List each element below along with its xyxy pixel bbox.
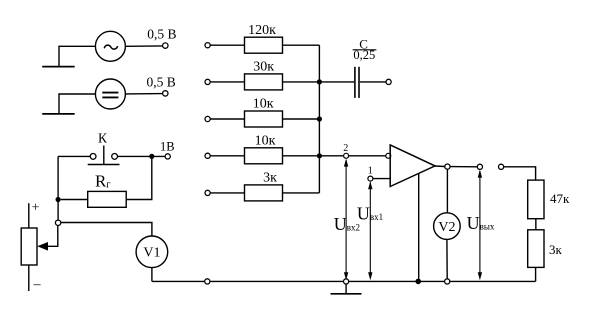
svg-text:10к: 10к	[255, 133, 276, 148]
wire	[283, 155, 320, 157]
svg-text:3к: 3к	[263, 171, 277, 186]
resistor 47к	[528, 180, 544, 219]
terminal (input R5)	[205, 190, 210, 195]
svg-text:3к: 3к	[549, 242, 563, 257]
wire	[210, 155, 244, 157]
terminal	[55, 220, 60, 225]
resistor R4 10к	[245, 148, 283, 164]
wire (op-amp ground pin)	[418, 174, 420, 282]
svg-text:V2: V2	[438, 220, 455, 235]
chassis plate (DC common)	[42, 113, 74, 115]
wire	[283, 44, 320, 46]
node 2 terminal	[344, 153, 349, 158]
wire	[535, 267, 537, 281]
op-amp input 2 pin	[386, 153, 391, 158]
potentiometer	[21, 203, 37, 291]
bus wire	[318, 45, 320, 193]
wire	[360, 81, 386, 83]
wire	[151, 268, 153, 282]
wire	[61, 223, 152, 237]
wire	[210, 81, 244, 83]
wiper arrow	[37, 226, 58, 251]
resistor R1 120к	[245, 37, 283, 53]
measurement arrow Uвх1	[368, 181, 372, 280]
terminal (1В)	[165, 154, 170, 159]
svg-text:Rг: Rг	[95, 172, 110, 191]
wire	[446, 239, 448, 278]
svg-text:2: 2	[343, 143, 348, 154]
svg-text:30к: 30к	[253, 60, 274, 75]
terminal (output a)	[477, 164, 482, 169]
terminal (output b)	[499, 164, 504, 169]
terminal (V2 bottom)	[445, 279, 450, 284]
wire	[126, 159, 152, 200]
junction	[317, 116, 322, 121]
measurement arrow Uвых	[478, 170, 482, 281]
terminal (DC output)	[163, 91, 168, 96]
terminal (input R2)	[205, 79, 210, 84]
svg-text:Uвых: Uвых	[467, 213, 495, 233]
terminal (ground point)	[344, 279, 349, 284]
wire	[59, 46, 95, 66]
wire	[125, 45, 162, 47]
wire	[446, 169, 448, 213]
junction	[317, 153, 322, 158]
junction	[415, 279, 421, 285]
svg-text:–: –	[33, 277, 42, 292]
junction	[149, 154, 154, 159]
wire	[535, 219, 537, 230]
ground	[331, 284, 362, 294]
op-amp U1	[390, 145, 435, 187]
wire	[210, 44, 244, 46]
wire	[210, 192, 244, 194]
terminal (common input)	[205, 279, 210, 284]
wire	[504, 167, 536, 180]
wire	[125, 93, 162, 95]
wire	[435, 165, 445, 168]
voltmeter V1	[136, 236, 168, 268]
junction	[317, 79, 322, 84]
terminal (input R3)	[205, 116, 210, 121]
svg-text:0,25: 0,25	[353, 48, 375, 62]
wire	[58, 155, 90, 157]
wire	[450, 166, 477, 168]
fraction bar	[353, 49, 377, 51]
wire	[59, 94, 95, 113]
svg-text:1: 1	[368, 166, 373, 177]
terminal (input R4)	[205, 153, 210, 158]
resistor R5 3к	[245, 185, 283, 201]
wire	[61, 199, 88, 201]
resistor R3 10к	[245, 111, 283, 127]
wire	[118, 155, 165, 157]
svg-text:V1: V1	[143, 246, 160, 261]
wire	[373, 178, 390, 180]
DC source G2	[95, 79, 125, 109]
ground rail wire	[152, 280, 536, 282]
terminal (op-amp output)	[445, 164, 450, 169]
svg-text:1В: 1В	[160, 139, 175, 153]
svg-text:+: +	[32, 201, 40, 216]
terminal (input R1)	[205, 43, 210, 48]
svg-text:0,5 В: 0,5 В	[147, 74, 176, 89]
svg-text:47к: 47к	[550, 191, 570, 206]
resistor R2 30к	[245, 74, 283, 90]
AC source G1	[95, 31, 125, 61]
wire	[210, 118, 244, 120]
resistor Rг	[88, 191, 127, 207]
terminal (AC output)	[163, 43, 168, 48]
node 1 terminal	[368, 176, 373, 181]
junction	[56, 197, 61, 202]
terminal (C output)	[386, 79, 391, 84]
svg-text:10к: 10к	[253, 97, 274, 112]
resistor 3к (load)	[528, 230, 544, 268]
wire	[57, 156, 59, 220]
wire	[283, 118, 320, 120]
wire	[283, 81, 320, 83]
measurement arrow Uвх2	[344, 159, 348, 281]
svg-text:К: К	[98, 131, 108, 146]
pushbutton switch К	[88, 146, 120, 165]
wire	[319, 155, 386, 157]
svg-text:0,5 В: 0,5 В	[147, 26, 176, 41]
svg-text:120к: 120к	[248, 23, 276, 38]
voltmeter V2	[434, 213, 461, 240]
wire	[319, 81, 354, 83]
wire	[283, 192, 320, 194]
capacitor C	[355, 67, 359, 98]
chassis plate (AC common)	[42, 66, 74, 68]
